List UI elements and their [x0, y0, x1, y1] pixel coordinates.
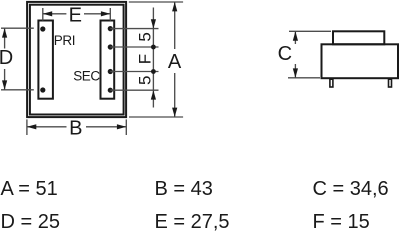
side-view body outline: [322, 44, 399, 78]
svg-text:5: 5: [135, 32, 154, 41]
dimension E extension tick left: [42, 8, 44, 21]
side-view right pin: [389, 79, 392, 87]
svg-text:B: B: [69, 118, 82, 140]
dimension A extension line bottom: [129, 116, 183, 118]
transformer top-view outer case outline: [27, 2, 126, 117]
svg-text:F = 15: F = 15: [313, 211, 370, 233]
svg-text:C: C: [278, 43, 292, 65]
side-view left pin: [330, 79, 333, 87]
arrowhead A down: [172, 108, 177, 117]
transformer top-view inner case outline: [30, 5, 124, 115]
dimension B extension line left: [26, 119, 28, 135]
dimension B extension line right: [125, 119, 127, 135]
arrowhead B left: [27, 124, 36, 129]
secondary pin 3: [108, 69, 113, 74]
secondary pin strip: [101, 21, 115, 99]
svg-text:5: 5: [135, 76, 154, 85]
secondary pin 4: [108, 88, 113, 93]
svg-text:D = 25: D = 25: [1, 211, 60, 233]
primary pin 1: [40, 26, 45, 31]
primary pin strip: [38, 21, 53, 99]
dimension C line upper segment: [294, 31, 296, 44]
arrowhead C down: [293, 68, 298, 77]
junction dot row3: [151, 69, 156, 74]
svg-text:E: E: [69, 5, 82, 27]
dimension C line lower segment: [294, 64, 296, 78]
arrowhead A up: [172, 2, 177, 11]
dimension B line left segment: [27, 126, 67, 128]
secondary pin 2: [108, 44, 113, 49]
dimension D extension line top: [1, 27, 34, 29]
dimension D line upper segment: [4, 28, 6, 48]
svg-text:A: A: [168, 51, 182, 73]
arrowhead B right: [117, 124, 126, 129]
arrowhead C up: [293, 31, 298, 40]
dimension B line right segment: [86, 126, 126, 128]
arrowhead E right: [101, 11, 110, 16]
svg-text:A = 51: A = 51: [1, 178, 58, 200]
svg-text:PRI: PRI: [54, 33, 75, 48]
svg-text:C = 34,6: C = 34,6: [313, 178, 389, 200]
dimension E extension tick right: [109, 8, 111, 21]
svg-text:F: F: [135, 54, 154, 64]
dimension A line upper segment: [174, 2, 176, 49]
dimension E line left segment: [43, 13, 67, 15]
arrowhead D down: [2, 80, 7, 89]
junction dot row2: [151, 45, 156, 50]
dimension E line right segment: [84, 13, 110, 15]
pin-row extension line 4: [110, 89, 158, 91]
dimension A extension line top: [129, 1, 183, 3]
arrowhead 5-F-5 up (bottom): [151, 90, 156, 99]
primary pin 2: [40, 87, 45, 92]
arrowhead E left: [43, 11, 52, 16]
svg-text:B = 43: B = 43: [155, 178, 213, 200]
dimension D line lower segment: [4, 69, 6, 90]
arrowhead 5-F-5 down (top): [151, 19, 156, 28]
dimension A line lower segment: [174, 73, 176, 117]
arrowhead D up: [2, 28, 7, 37]
dimension C extension line bottom: [288, 77, 320, 79]
dimension 5-F-5 line: [152, 8, 154, 29]
dimension C extension line top: [289, 30, 331, 32]
svg-text:D: D: [0, 47, 13, 69]
svg-text:SEC: SEC: [73, 68, 100, 83]
svg-text:E = 27,5: E = 27,5: [155, 211, 230, 233]
secondary pin 1: [108, 26, 113, 31]
side-view coil top outline: [333, 31, 384, 44]
pin-row extension line 2: [110, 46, 158, 48]
dimension D extension line bottom: [1, 89, 34, 91]
pin-row extension line 3: [110, 71, 158, 73]
pin-row extension line 1: [110, 28, 158, 30]
